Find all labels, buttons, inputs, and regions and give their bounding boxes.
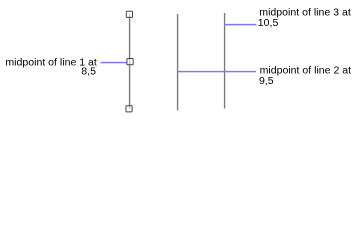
leader to midpoint of line 2 xyxy=(178,71,256,73)
svg-text:9,5: 9,5 xyxy=(259,75,274,87)
wire line 2 xyxy=(177,14,179,110)
wire line 1 xyxy=(129,14,131,109)
leader to midpoint of line 3 xyxy=(225,24,257,26)
leader to midpoint of line 1 xyxy=(100,62,127,64)
node handle bottom of line 1 xyxy=(126,106,132,112)
svg-text:8,5: 8,5 xyxy=(81,66,96,78)
node handle top of line 1 xyxy=(126,11,132,17)
node handle midpoint of line 1 xyxy=(127,59,133,65)
wire line 3 xyxy=(224,13,226,109)
svg-text:10,5: 10,5 xyxy=(258,17,279,29)
